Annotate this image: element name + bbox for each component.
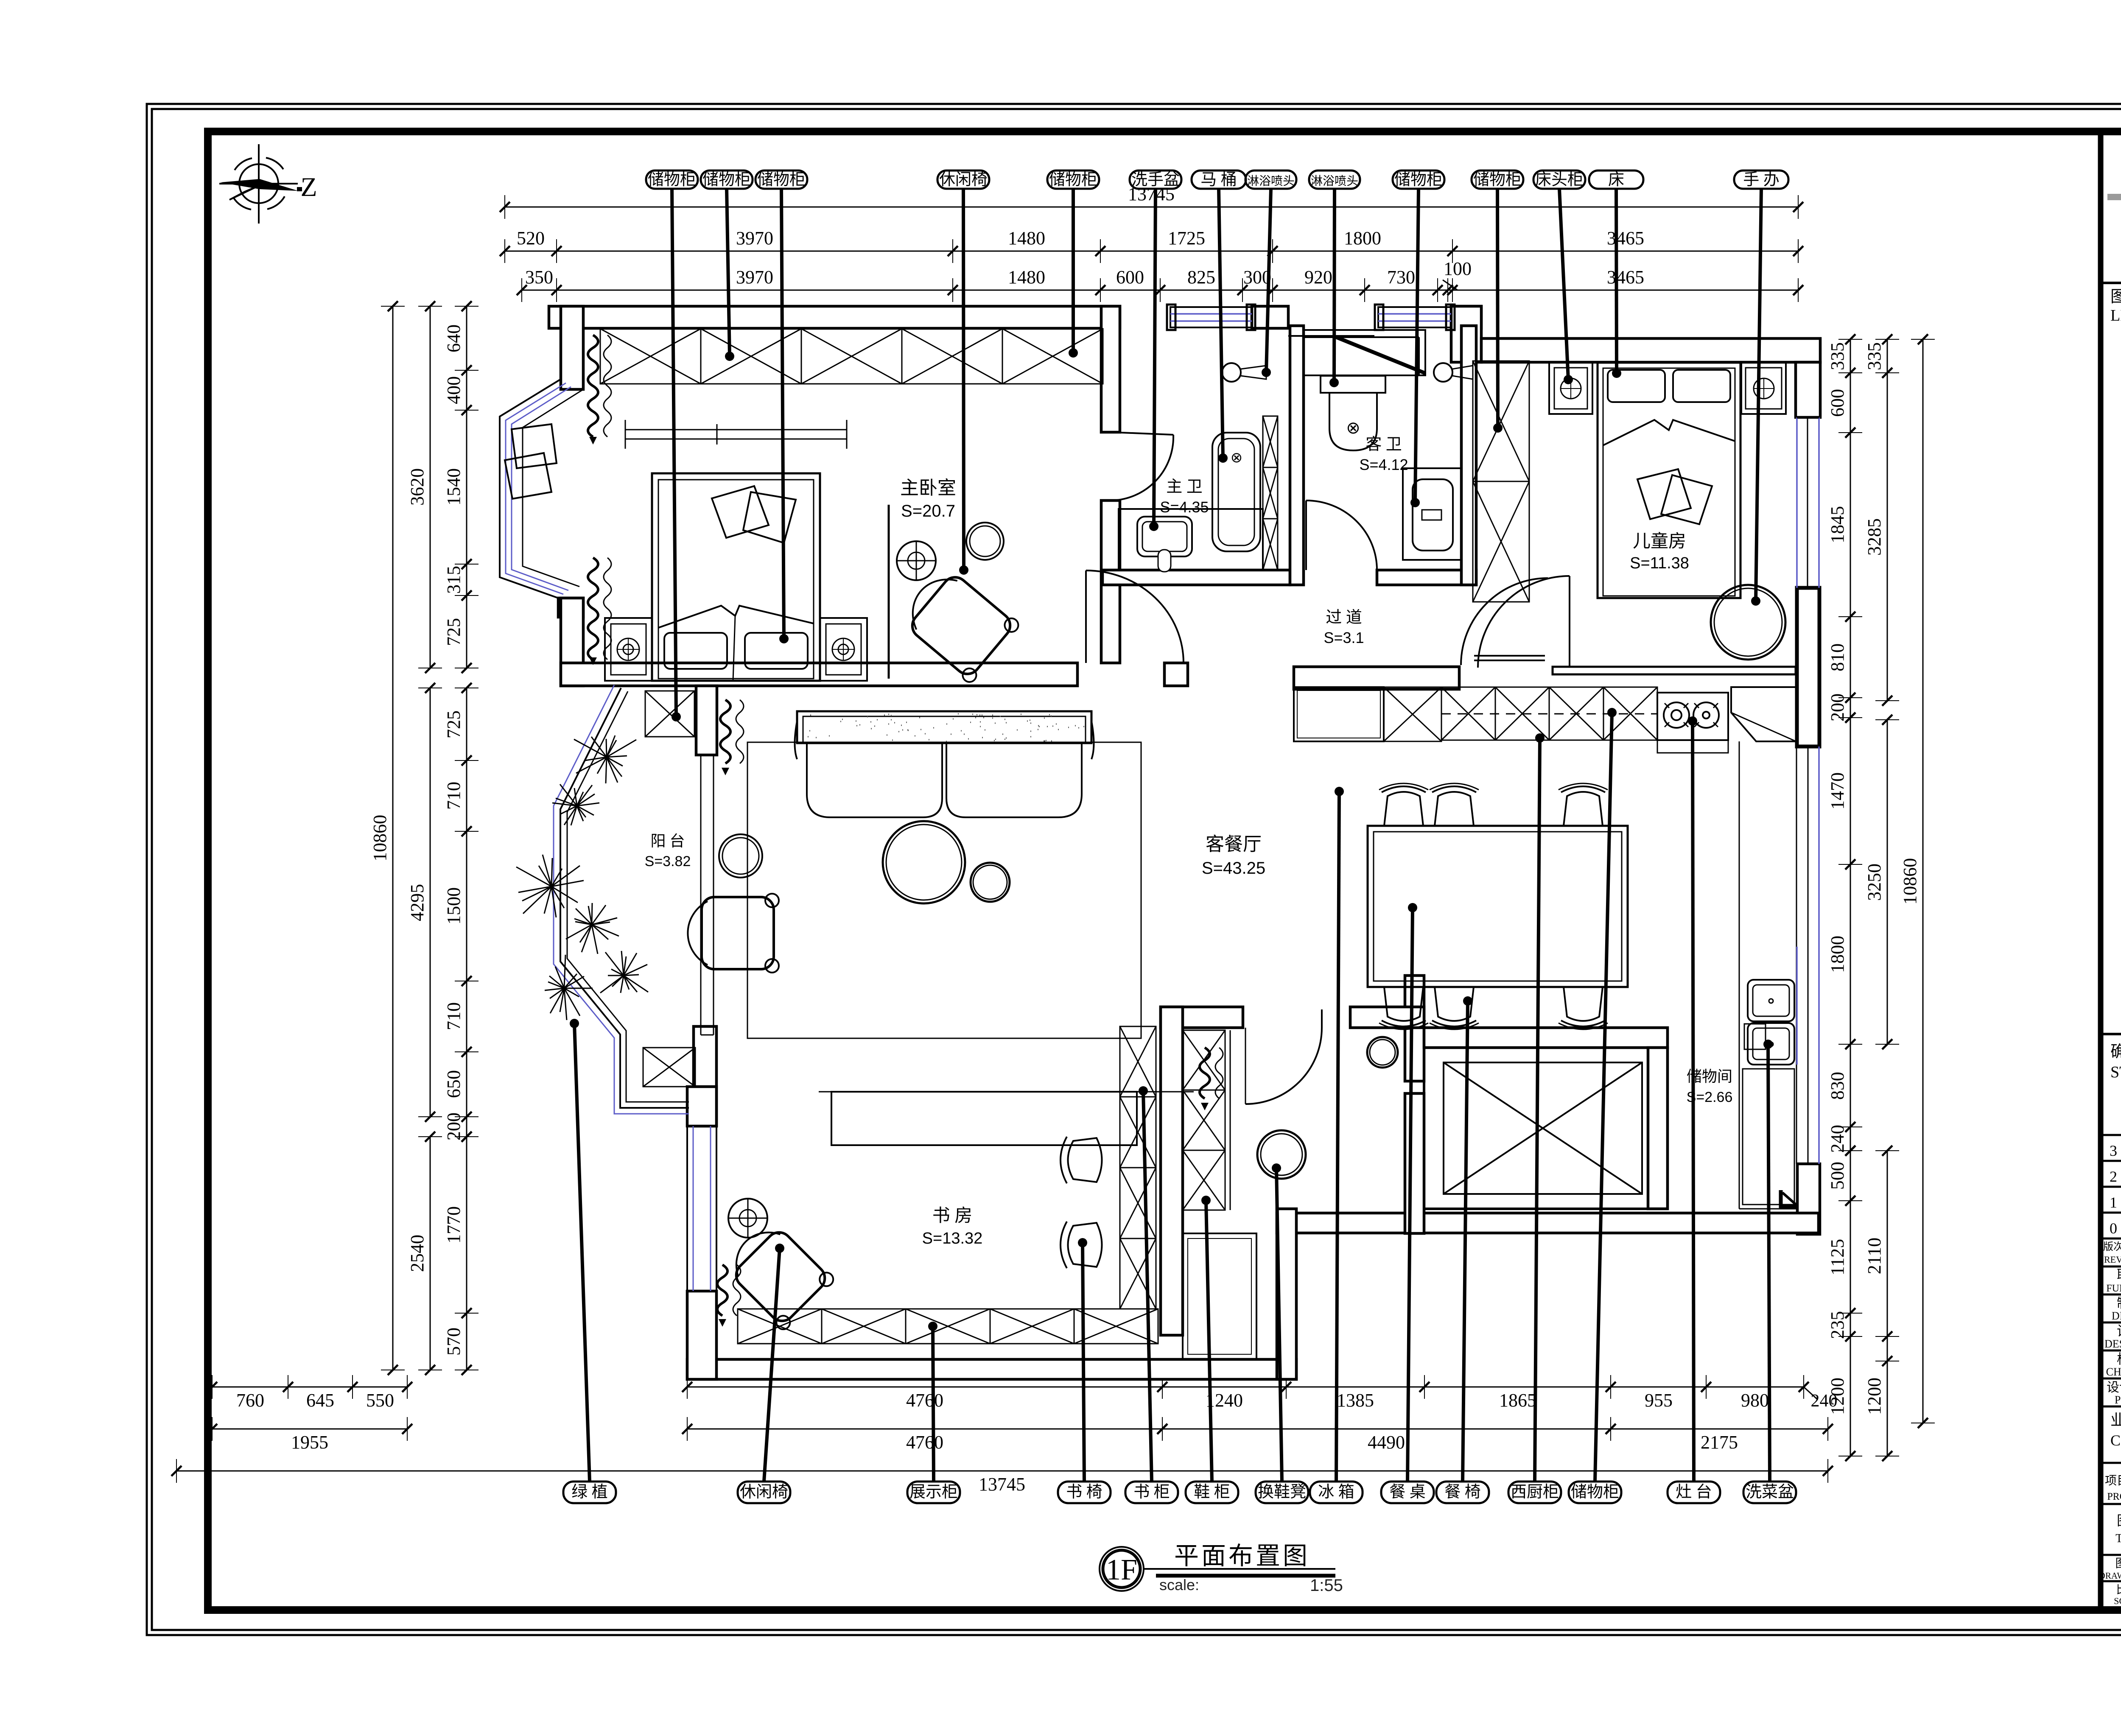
bay window plants master: [512, 424, 557, 468]
svg-text:⊗: ⊗: [1346, 418, 1360, 437]
svg-text:PHASE: PHASE: [2115, 1394, 2121, 1406]
right dimension chain mid: [1887, 339, 1888, 701]
svg-text:淋浴喷头: 淋浴喷头: [1311, 174, 1358, 188]
svg-text:640: 640: [443, 324, 464, 352]
svg-text:1800: 1800: [1827, 936, 1848, 973]
svg-text:储物柜: 储物柜: [1049, 171, 1097, 189]
svg-text:PROJECT: PROJECT: [2107, 1491, 2121, 1502]
svg-text:淋浴喷头: 淋浴喷头: [1247, 174, 1295, 188]
round stool vestibule: [1367, 1037, 1398, 1068]
svg-text:3: 3: [2110, 1142, 2117, 1159]
wall hallway bottom: [1294, 667, 1459, 689]
svg-text:2110: 2110: [1864, 1238, 1885, 1274]
left dimension chain mid: [430, 306, 431, 668]
right dimension chain overall 10860: [1922, 339, 1924, 1423]
svg-text:600: 600: [1827, 389, 1848, 417]
svg-text:100: 100: [1444, 258, 1472, 279]
shower head master: [1222, 363, 1241, 382]
svg-text:scale:: scale:: [1159, 1576, 1199, 1593]
column box balcony mid: [643, 1048, 695, 1087]
svg-text:730: 730: [1387, 267, 1415, 288]
svg-text:240: 240: [1827, 1125, 1848, 1153]
svg-text:350: 350: [525, 267, 553, 288]
label top 床 #13: [1589, 171, 1643, 189]
svg-text:1500: 1500: [443, 887, 464, 925]
wall vestibule right / shaft left: [1405, 976, 1424, 1081]
curtain rail master: [625, 429, 847, 431]
range hood corner: [1731, 687, 1796, 741]
duct column right of hallway: [1797, 588, 1819, 746]
svg-text:平面布置图: 平面布置图: [1174, 1542, 1310, 1570]
svg-text:1725: 1725: [1168, 228, 1205, 249]
label bottom 灶 台 #13: [1668, 1482, 1720, 1503]
svg-text:1480: 1480: [1008, 228, 1045, 249]
office chair study 2: [1060, 1222, 1102, 1268]
label top 床头柜 #12: [1533, 171, 1585, 189]
svg-text:FUNCTION: FUNCTION: [2106, 1283, 2121, 1294]
svg-text:餐 桌: 餐 桌: [1389, 1483, 1426, 1501]
svg-text:S=43.25: S=43.25: [1202, 859, 1265, 878]
svg-text:洗菜盆: 洗菜盆: [1746, 1483, 1794, 1501]
svg-text:储物柜: 储物柜: [1473, 171, 1522, 189]
wall top master bedroom: [549, 306, 1120, 328]
svg-text:3285: 3285: [1864, 518, 1885, 556]
floor lamp master corner: [897, 541, 936, 580]
side table balcony: [719, 834, 762, 878]
wall master bedroom bottom: [561, 663, 1077, 686]
label top 马 桶 #7: [1192, 171, 1246, 189]
top dimension chain overall 13745: [505, 207, 1798, 208]
wardrobe children (chu wu gui): [1473, 361, 1529, 602]
armchair balcony: [688, 894, 779, 973]
top dimension chain 3465 row3: [1452, 290, 1798, 291]
cooktop (zao tai): [1657, 693, 1728, 740]
svg-text:餐 椅: 餐 椅: [1444, 1483, 1481, 1501]
svg-text:图例:: 图例:: [2110, 288, 2121, 306]
svg-text:1F: 1F: [1106, 1554, 1137, 1586]
svg-text:过 道: 过 道: [1326, 609, 1362, 626]
svg-text:储物柜: 储物柜: [702, 171, 751, 189]
svg-text:10860: 10860: [369, 815, 390, 861]
label top 储物柜 #1: [646, 171, 698, 189]
nightstand master right: [820, 618, 867, 681]
label bottom 绿 植 #1: [563, 1482, 616, 1503]
svg-text:1: 1: [2110, 1194, 2117, 1211]
label bottom 休闲椅 #2: [738, 1482, 790, 1503]
label top 储物柜 #10: [1393, 171, 1444, 189]
cabinet row master bedroom top (chu wu gui): [600, 329, 1103, 384]
svg-text:西厨柜: 西厨柜: [1511, 1483, 1559, 1501]
window top master-bath: [1170, 307, 1252, 327]
label bottom 冰 箱 #8: [1310, 1482, 1363, 1503]
svg-text:设 计: 设 计: [2117, 1323, 2121, 1339]
label bottom 鞋 柜 #6: [1186, 1482, 1238, 1503]
bed master blanket fold: [658, 606, 814, 628]
svg-text:4490: 4490: [1368, 1432, 1405, 1453]
svg-text:阳 台: 阳 台: [650, 833, 685, 850]
label bottom 换鞋凳 #7: [1256, 1482, 1308, 1503]
svg-text:S=20.7: S=20.7: [901, 502, 955, 520]
svg-text:725: 725: [443, 710, 464, 738]
svg-text:725: 725: [443, 618, 464, 646]
svg-text:4760: 4760: [906, 1432, 943, 1453]
svg-text:灶 台: 灶 台: [1676, 1483, 1712, 1501]
wall study left upper block: [694, 1026, 716, 1126]
window study left: [687, 1126, 716, 1291]
label top 手 办 #14: [1734, 171, 1788, 189]
svg-text:0: 0: [2110, 1220, 2117, 1237]
bed children blanket: [1603, 420, 1735, 445]
svg-text:1800: 1800: [1344, 228, 1381, 249]
svg-text:休闲椅: 休闲椅: [939, 171, 988, 189]
master bedroom door arc: [1085, 570, 1087, 663]
bed children pillows: [1608, 370, 1665, 402]
svg-text:冰 箱: 冰 箱: [1318, 1483, 1354, 1501]
designed row: [2101, 1350, 2121, 1352]
svg-text:570: 570: [443, 1328, 464, 1356]
svg-text:休闲椅: 休闲椅: [740, 1483, 788, 1501]
top dimension chain row3: [522, 290, 1798, 291]
children room door arc: [1478, 576, 1570, 668]
svg-text:业主:: 业主:: [2110, 1412, 2121, 1428]
drawing number row: [2101, 1554, 2121, 1556]
desk study: [831, 1092, 1137, 1145]
svg-text:DRAWING NO.: DRAWING NO.: [2099, 1571, 2121, 1581]
svg-text:710: 710: [443, 782, 464, 810]
wall vestibule top (living side): [1161, 1007, 1243, 1028]
svg-text:手 办: 手 办: [1743, 171, 1780, 189]
svg-text:235: 235: [1827, 1311, 1848, 1339]
svg-text:1770: 1770: [443, 1206, 464, 1244]
nightstand children right: [1741, 363, 1786, 414]
phase row: [2101, 1406, 2121, 1408]
sink lower (xi cai pen): [1748, 1023, 1794, 1065]
svg-text:825: 825: [1187, 267, 1215, 288]
dining chairs top: [1379, 783, 1428, 826]
svg-text:储物柜: 储物柜: [1571, 1483, 1619, 1501]
svg-text:DRAWN: DRAWN: [2112, 1310, 2121, 1322]
svg-text:制 图: 制 图: [2117, 1295, 2121, 1311]
svg-text:LEGEND:: LEGEND:: [2110, 307, 2121, 324]
label bottom 餐 桌 #9: [1381, 1482, 1434, 1503]
svg-text:设计阶段: 设计阶段: [2107, 1381, 2121, 1395]
svg-text:儿童房: 儿童房: [1633, 531, 1686, 551]
entry door arc: [1321, 1009, 1323, 1028]
svg-text:335: 335: [1864, 342, 1885, 370]
kitchen left cabinet (fridge): [1294, 687, 1384, 741]
office chair study 1: [1060, 1137, 1102, 1183]
sheet inner thick frame: [208, 131, 2121, 1610]
svg-text:STAMP:: STAMP:: [2110, 1063, 2121, 1081]
window children right: [1807, 417, 1808, 588]
label bottom 书 椅 #4: [1058, 1482, 1111, 1503]
svg-text:4760: 4760: [906, 1390, 943, 1411]
svg-text:1540: 1540: [443, 468, 464, 506]
wall right children upper: [1796, 362, 1820, 417]
label top 休闲椅 #4: [937, 171, 989, 189]
svg-text:客餐厅: 客餐厅: [1206, 834, 1262, 855]
svg-text:书 房: 书 房: [932, 1206, 973, 1226]
label bottom 洗菜盆 #14: [1743, 1482, 1796, 1503]
toilet guest bath: [1321, 376, 1385, 393]
label bottom 展示柜 #3: [907, 1482, 960, 1503]
svg-text:3620: 3620: [407, 468, 428, 506]
towel rail master bath: [1288, 335, 1374, 337]
sofa: [797, 711, 1091, 743]
kitchen counter hatch (xi chu gui): [1441, 687, 1657, 740]
svg-text:3970: 3970: [736, 267, 773, 288]
svg-text:项目名称: 项目名称: [2105, 1474, 2121, 1487]
side table master: [966, 523, 1004, 560]
svg-text:储物柜: 储物柜: [1394, 171, 1443, 189]
svg-text:马 桶: 马 桶: [1200, 171, 1237, 189]
svg-text:储物柜: 储物柜: [757, 171, 806, 189]
glass partition master: [888, 505, 890, 679]
revision header row: [2101, 1266, 2121, 1268]
study bottom cabinet (zhan shi gui): [738, 1309, 1158, 1344]
duct column master bath: [1263, 416, 1278, 570]
svg-text:710: 710: [443, 1002, 464, 1030]
svg-text:绿 植: 绿 植: [571, 1483, 608, 1501]
nightstand master left: [605, 618, 652, 681]
svg-text:2540: 2540: [407, 1235, 428, 1272]
drawn row with signature: [2101, 1322, 2121, 1324]
svg-text:315: 315: [443, 566, 464, 594]
left dimension chain inner lower: [466, 688, 467, 1137]
wall left master upper: [561, 306, 583, 389]
svg-text:S=4.12: S=4.12: [1359, 456, 1408, 473]
svg-text:床: 床: [1608, 171, 1624, 189]
svg-text:1125: 1125: [1827, 1239, 1848, 1275]
svg-text:S=3.82: S=3.82: [645, 853, 691, 869]
balcony slider door lines: [700, 755, 702, 1035]
sofa back stipple: [808, 714, 1084, 741]
wall vestibule-step vertical: [1277, 1209, 1296, 1379]
armchair study: [719, 1215, 836, 1332]
round stand (shou ban): [1711, 585, 1785, 660]
wall study bottom: [687, 1359, 1296, 1379]
storage corner door mark: [1779, 1190, 1783, 1208]
label bottom 餐 椅 #10: [1436, 1482, 1489, 1503]
floor lamp study: [728, 1199, 767, 1238]
wall bath bottom (hallway top): [1102, 570, 1290, 585]
svg-text:3465: 3465: [1607, 228, 1644, 249]
wall top-right connector: [1451, 306, 1481, 362]
revision table: [2101, 1134, 2121, 1136]
svg-text:洗手盆: 洗手盆: [1131, 171, 1180, 189]
svg-text:920: 920: [1304, 267, 1332, 288]
svg-text:550: 550: [366, 1390, 394, 1411]
svg-text:鞋 柜: 鞋 柜: [1194, 1483, 1230, 1501]
top dimension chain row2: [505, 251, 1798, 252]
dining table: [1368, 826, 1628, 987]
north arrow compass: [219, 144, 298, 224]
label top 淋浴喷头 #9: [1309, 171, 1360, 189]
svg-text:1955: 1955: [291, 1432, 328, 1453]
svg-text:主卧室: 主卧室: [900, 478, 956, 498]
svg-text:3465: 3465: [1607, 267, 1644, 288]
svg-text:520: 520: [517, 228, 545, 249]
left dimension chain inner bottom: [466, 1137, 467, 1370]
entry bench (huan xie deng): [1183, 1233, 1256, 1359]
bottom dimension chain row1: [212, 1387, 407, 1388]
label bottom 储物柜 #12: [1569, 1482, 1621, 1503]
svg-text:760: 760: [236, 1390, 264, 1411]
svg-text:Z: Z: [300, 172, 317, 202]
svg-text:CHECKED: CHECKED: [2106, 1366, 2121, 1378]
balcony lower glazing: [560, 688, 689, 1108]
svg-text:1385: 1385: [1337, 1390, 1374, 1411]
vacuum niche: [1744, 1024, 1766, 1049]
svg-text:展示柜: 展示柜: [909, 1483, 958, 1501]
nightstand children left: [1549, 363, 1592, 414]
window kitchen right upper: [1796, 746, 1797, 1164]
checked row: [2101, 1378, 2121, 1380]
wall top children room: [1481, 338, 1820, 362]
wall right kitchen-storage: [1797, 1164, 1820, 1234]
svg-text:1:55: 1:55: [1310, 1576, 1343, 1595]
svg-text:书 椅: 书 椅: [1066, 1483, 1102, 1501]
bed master: [652, 473, 820, 681]
svg-text:⊗: ⊗: [1231, 450, 1243, 466]
shower head guest bath: [1434, 363, 1452, 382]
kitchen east counter: [1739, 741, 1740, 1209]
svg-text:版次: 版次: [2103, 1241, 2121, 1252]
project row: [2101, 1462, 2121, 1464]
sink upper: [1748, 980, 1794, 1021]
label top 储物柜 #11: [1472, 171, 1523, 189]
svg-text:2175: 2175: [1701, 1432, 1738, 1453]
svg-text:335: 335: [1827, 342, 1848, 370]
svg-text:1845: 1845: [1827, 506, 1848, 543]
svg-text:比 例: 比 例: [2116, 1584, 2121, 1596]
svg-text:CLIENT:: CLIENT:: [2110, 1432, 2121, 1449]
svg-text:书 柜: 书 柜: [1133, 1483, 1170, 1501]
wall living west block below balcony opening: [696, 686, 717, 755]
figure title 1F plan: [1100, 1547, 1144, 1591]
balcony plants: [574, 735, 636, 783]
dining chairs bottom: [1379, 987, 1428, 1029]
coffee table small: [971, 863, 1010, 902]
function-name-signature table: [2101, 1294, 2121, 1296]
svg-text:客 卫: 客 卫: [1365, 436, 1402, 453]
svg-text:图 名: 图 名: [2117, 1513, 2121, 1528]
svg-text:1470: 1470: [1827, 772, 1848, 810]
svg-text:校 对: 校 对: [2117, 1351, 2121, 1367]
wall shaft right: [1648, 1048, 1668, 1209]
svg-text:3250: 3250: [1864, 864, 1885, 901]
bathtub master: [1212, 433, 1260, 551]
svg-text:600: 600: [1116, 267, 1144, 288]
svg-text:1480: 1480: [1008, 267, 1045, 288]
svg-text:S=11.38: S=11.38: [1630, 554, 1689, 572]
svg-text:830: 830: [1827, 1072, 1848, 1100]
wall left master lower corner: [558, 598, 583, 617]
svg-text:换鞋凳: 换鞋凳: [1258, 1483, 1306, 1501]
svg-text:4295: 4295: [407, 884, 428, 921]
svg-text:职 责: 职 责: [2117, 1267, 2121, 1283]
svg-text:S=3.1: S=3.1: [1324, 629, 1364, 646]
wall master-bath partition: [1101, 306, 1120, 432]
svg-text:主 卫: 主 卫: [1166, 478, 1203, 496]
svg-text:240: 240: [1811, 1391, 1838, 1411]
bed master decor cushions: [712, 486, 769, 538]
svg-text:REV: REV: [2104, 1254, 2121, 1265]
svg-text:DESIGNED: DESIGNED: [2104, 1338, 2121, 1350]
wall study right: [1161, 1007, 1183, 1335]
wall guest-bath right: [1461, 326, 1476, 585]
wall guest-bath left: [1290, 326, 1304, 585]
stamp box: [2101, 1033, 2121, 1035]
corner shower guest bath: [1304, 330, 1425, 375]
svg-text:SCALE: SCALE: [2114, 1596, 2121, 1606]
drawing title row: [2101, 1503, 2121, 1505]
svg-text:500: 500: [1827, 1162, 1848, 1190]
study bookshelf (shu gui): [1120, 1026, 1156, 1309]
hallway door arc (entry): [1474, 655, 1545, 657]
svg-text:955: 955: [1645, 1390, 1673, 1411]
curtain symbols: [588, 335, 598, 437]
svg-text:图 号: 图 号: [2115, 1557, 2121, 1570]
svg-text:2: 2: [2110, 1168, 2117, 1185]
elevator shaft: [1424, 1048, 1648, 1209]
svg-text:400: 400: [443, 376, 464, 404]
svg-text:S=4.35: S=4.35: [1160, 498, 1209, 516]
title block separator: [2098, 131, 2104, 1610]
bottom dimension chain row2: [212, 1428, 407, 1430]
wall shaft top: [1350, 1007, 1424, 1028]
wall bottom-right storage: [1407, 1213, 1819, 1233]
label top 储物柜 #3: [756, 171, 807, 189]
svg-text:10860: 10860: [1900, 858, 1920, 905]
master bath door arc: [1111, 432, 1173, 435]
label top 储物柜 #2: [701, 171, 753, 189]
round table vestibule: [1257, 1130, 1306, 1179]
label bottom 书 柜 #5: [1125, 1482, 1178, 1503]
left dimension chain overall 10860: [392, 306, 394, 1370]
scale row: [2101, 1580, 2121, 1582]
coffee table big: [883, 821, 965, 903]
pantry (chu wu jian) counter: [1743, 1069, 1794, 1205]
bed master pillows: [664, 633, 727, 669]
bed children: [1598, 363, 1740, 598]
guest bath door arc: [1305, 500, 1307, 570]
right dimension chain inner: [1850, 339, 1851, 718]
wall top bath section: [1252, 306, 1288, 328]
svg-text:645: 645: [306, 1390, 334, 1411]
svg-text:810: 810: [1827, 643, 1848, 671]
svg-text:13745: 13745: [979, 1474, 1025, 1495]
rug living: [747, 742, 1141, 1038]
window kitchen right lower: [1796, 947, 1798, 1065]
bed children decor cushions: [1637, 469, 1691, 519]
svg-text:1200: 1200: [1864, 1378, 1885, 1415]
svg-text:储物柜: 储物柜: [648, 171, 696, 189]
svg-text:3970: 3970: [736, 228, 773, 249]
svg-text:1865: 1865: [1499, 1390, 1536, 1411]
entry shoe cabinet (xie gui): [1183, 1030, 1225, 1210]
bay window master bedroom (balcony upper): [500, 379, 561, 598]
window top guest-bath: [1378, 307, 1451, 327]
label bottom 西厨柜 #11: [1508, 1482, 1561, 1503]
left dimension chain inner upper: [466, 306, 467, 668]
label top 储物柜 #5: [1047, 171, 1099, 189]
svg-text:980: 980: [1741, 1390, 1769, 1411]
title block logo EASYHOME TOP DESIGN CENTER: [2101, 282, 2121, 284]
label top 淋浴喷头 #8: [1245, 171, 1296, 189]
svg-text:650: 650: [443, 1070, 464, 1098]
wall study left lower: [687, 1291, 716, 1379]
